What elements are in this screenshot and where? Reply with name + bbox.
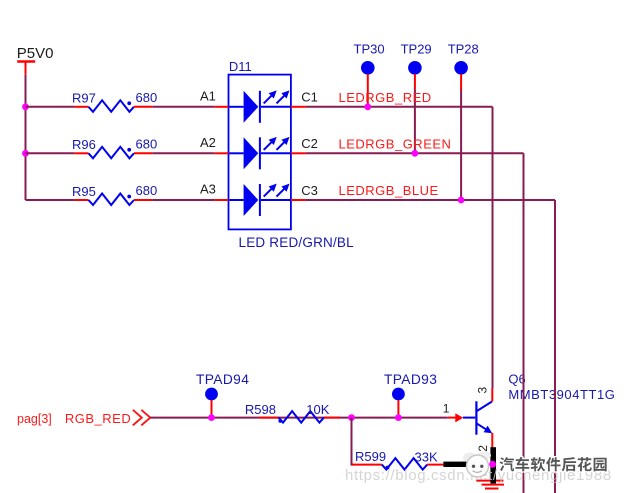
base input arrow red xyxy=(448,417,456,419)
wire: left vertical bus from P5V0 down to row 3 xyxy=(25,75,27,200)
wire vertical LEDRGB_BLUE down to bottom xyxy=(554,200,556,493)
wire row2 right to corner xyxy=(306,152,524,154)
svg-text:TP30: TP30 xyxy=(354,42,385,57)
svg-text:680: 680 xyxy=(136,136,158,151)
wire row2 to D11 xyxy=(152,152,214,154)
LED element row2 xyxy=(229,137,290,169)
node junction TP28/row3 xyxy=(458,197,465,204)
pin C1 xyxy=(291,90,318,107)
base pin xyxy=(463,417,475,419)
base bar xyxy=(475,401,477,434)
emitter diagonal xyxy=(476,423,487,430)
port pag[3] RGB_RED xyxy=(17,410,150,426)
svg-text:R598: R598 xyxy=(245,402,276,417)
svg-text:C3: C3 xyxy=(301,183,318,198)
watermark logo xyxy=(463,452,491,478)
collector pin red xyxy=(491,389,493,402)
node junction TP30/row1 xyxy=(364,103,371,110)
svg-text:LEDRGB_GREEN: LEDRGB_GREEN xyxy=(339,136,452,151)
svg-text:A1: A1 xyxy=(200,88,216,103)
pin C2 xyxy=(291,136,318,153)
pin C3 xyxy=(291,183,318,200)
resistor R96 680 xyxy=(72,136,157,158)
node junction TPAD93 xyxy=(395,414,402,421)
svg-text:LED RED/GRN/BL: LED RED/GRN/BL xyxy=(239,235,355,250)
wire row2 left segment xyxy=(26,152,75,154)
ground GND xyxy=(476,481,504,489)
testpoint TP29 xyxy=(401,42,432,154)
wire emitter thick black segment xyxy=(490,447,496,483)
node junction emitter/R599/GND xyxy=(489,461,496,468)
testpoint TPAD94 xyxy=(196,372,249,418)
power port P5V0 xyxy=(17,45,54,75)
testpoint TP28 xyxy=(448,42,479,201)
resistor R95 680 xyxy=(72,183,157,205)
svg-text:R95: R95 xyxy=(72,184,96,199)
resistor R599 33K xyxy=(352,449,443,470)
wire row3 left segment xyxy=(26,199,75,201)
node junction TP29/row2 xyxy=(412,150,419,157)
testpoint TPAD93 xyxy=(384,372,437,418)
wire vertical LEDRGB_GREEN down to bottom xyxy=(523,153,525,493)
svg-text:TP28: TP28 xyxy=(448,42,479,57)
svg-text:C2: C2 xyxy=(301,136,318,151)
wire branch down to R599 xyxy=(352,418,354,465)
node junction R599 branch xyxy=(348,414,355,421)
svg-text:2: 2 xyxy=(476,445,490,452)
wire row3 to D11 xyxy=(152,199,214,201)
LED package D11 xyxy=(229,59,355,250)
svg-text:C1: C1 xyxy=(301,90,318,105)
pin A2 xyxy=(200,135,229,153)
svg-text:D11: D11 xyxy=(229,59,252,74)
svg-text:33K: 33K xyxy=(415,450,438,465)
svg-text:680: 680 xyxy=(136,183,158,198)
wire row1 to D11 xyxy=(152,106,214,108)
svg-text:A3: A3 xyxy=(200,182,216,197)
svg-text:R599: R599 xyxy=(355,449,386,464)
svg-text:TP29: TP29 xyxy=(401,42,432,57)
wire row3 right to corner xyxy=(306,199,555,201)
pin A3 xyxy=(200,182,229,200)
node junction row1 left xyxy=(22,103,29,110)
wire R599 to emitter thick black segment xyxy=(443,462,468,467)
svg-text:10K: 10K xyxy=(306,402,329,417)
svg-text:R97: R97 xyxy=(72,91,96,106)
svg-text:1: 1 xyxy=(443,401,450,415)
resistor R97 680 xyxy=(72,90,157,112)
wire vertical LEDRGB_RED down to Q6 collector xyxy=(492,107,494,389)
wire bottom RGB_RED run xyxy=(150,417,448,419)
testpoint TP30 xyxy=(354,42,385,107)
wire row1 left segment xyxy=(26,106,75,108)
svg-text:TPAD94: TPAD94 xyxy=(196,372,249,387)
emitter arrowhead xyxy=(484,426,493,434)
emitter pin red xyxy=(491,433,493,448)
node junction row2 left xyxy=(22,150,29,157)
resistor R598 10K xyxy=(245,402,340,423)
node junction TPAD94 xyxy=(208,414,215,421)
svg-text:RGB_RED: RGB_RED xyxy=(65,411,131,426)
svg-text:pag[3]: pag[3] xyxy=(17,412,52,426)
LED element row1 xyxy=(229,90,290,122)
wire row1 right to corner xyxy=(306,106,493,108)
pin A1 xyxy=(200,88,229,106)
LED element row3 xyxy=(229,184,290,216)
svg-text:LEDRGB_RED: LEDRGB_RED xyxy=(339,90,432,105)
svg-text:680: 680 xyxy=(136,90,158,105)
svg-text:R96: R96 xyxy=(72,137,96,152)
transistor Q6 MMBT3904TT1G xyxy=(443,372,616,452)
collector diagonal xyxy=(476,402,492,412)
svg-text:TPAD93: TPAD93 xyxy=(384,372,437,387)
svg-text:3: 3 xyxy=(476,387,490,394)
svg-text:A2: A2 xyxy=(200,135,216,150)
watermark text cn xyxy=(500,457,607,471)
svg-text:LEDRGB_BLUE: LEDRGB_BLUE xyxy=(339,183,439,198)
svg-text:P5V0: P5V0 xyxy=(17,45,54,62)
